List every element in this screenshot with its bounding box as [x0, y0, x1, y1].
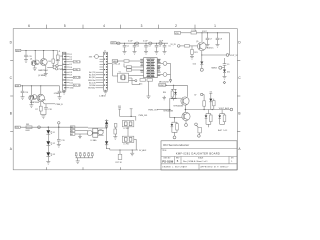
pad 5V label — [201, 93, 203, 95]
IC U1 left pin texts — [146, 59, 154, 77]
resistor R24 — [203, 101, 206, 106]
wire junction down — [201, 33, 203, 42]
wire gate bus — [157, 109, 170, 111]
ground — [144, 51, 148, 53]
net label D5V 2 — [15, 126, 20, 128]
svg-text:C22: C22 — [118, 106, 121, 108]
power flag T style — [130, 108, 133, 110]
resistor R10 — [124, 60, 129, 62]
wire D5V rail — [21, 50, 58, 52]
svg-text:LC FILT: LC FILT — [123, 144, 129, 146]
resistor RB — [176, 124, 179, 130]
node dot 3 — [149, 42, 152, 44]
test point bus ground — [77, 158, 79, 161]
title block col line c — [228, 156, 230, 163]
svg-text:Q5: Q5 — [196, 41, 198, 43]
resistor R14 under IC — [147, 79, 153, 82]
wire cap drop — [25, 51, 27, 55]
pin circle right 1 — [163, 62, 167, 66]
capacitor C4 — [156, 43, 158, 45]
capacitor C5 — [164, 43, 166, 45]
wire A2 — [75, 130, 88, 132]
junction — [169, 109, 170, 110]
connector J1 pin numbers — [63, 53, 66, 88]
ground mid — [131, 150, 133, 153]
wire Q2 out — [47, 66, 53, 68]
junction stack A — [173, 85, 174, 86]
wire Q_top base — [170, 97, 181, 99]
IC U1 outside pin names right — [158, 58, 161, 61]
LED D2 — [46, 141, 50, 145]
IC U1 outside pin names left — [140, 59, 160, 76]
ground — [44, 73, 48, 75]
pad below stack B — [173, 136, 176, 139]
capacitor C3 — [145, 43, 147, 45]
ESD device U3 — [87, 130, 92, 135]
svg-text:A0 (TX): A0 (TX) — [89, 71, 96, 74]
capacitor C18 — [45, 104, 47, 108]
filter box pair 2 — [122, 136, 134, 142]
wire Q3 emitter gnd — [30, 100, 32, 105]
pin net labels J2 — [88, 71, 96, 90]
svg-text:ON Semiconductor: ON Semiconductor — [163, 143, 189, 147]
pad VOUT_AUX — [230, 108, 233, 111]
net label A1 — [70, 126, 75, 129]
svg-text:B: B — [238, 112, 240, 116]
wire Q3 drop — [30, 86, 32, 95]
resistor R26 — [210, 115, 213, 122]
svg-text:D3: D3 — [70, 59, 72, 61]
svg-text:R30: R30 — [163, 92, 166, 94]
svg-text:C18: C18 — [48, 109, 51, 111]
tick column 3/2 top — [158, 25, 160, 29]
input pad 5V_IN — [177, 45, 180, 48]
svg-text:MMBT3904: MMBT3904 — [30, 102, 39, 104]
capacitor C15 — [24, 54, 28, 56]
test point TP2 — [79, 152, 81, 154]
svg-text:D1: D1 — [53, 132, 55, 134]
svg-text:GND: GND — [70, 88, 75, 90]
pad chain bottom-left — [195, 123, 198, 126]
capacitor C19 — [57, 139, 61, 141]
ground — [206, 44, 210, 46]
svg-text:DRAWN: J. BUTCHART: DRAWN: J. BUTCHART — [162, 166, 188, 169]
svg-text:D9: D9 — [70, 75, 72, 77]
wire R4 down to out — [52, 63, 54, 67]
pad 3V3 left — [56, 65, 58, 67]
wire Q1 collector drop — [34, 51, 36, 61]
diode D11 — [223, 70, 226, 73]
svg-text:J2: J2 — [104, 51, 106, 53]
diode DB — [171, 124, 174, 127]
svg-text:C19: C19 — [61, 140, 64, 142]
svg-text:D11: D11 — [227, 71, 230, 73]
svg-text:C14: C14 — [60, 56, 63, 58]
svg-text:R7: R7 — [35, 109, 37, 111]
net label 3V3 rail — [111, 42, 116, 44]
diode DA — [174, 92, 177, 95]
wire CTRL right — [108, 63, 113, 65]
ground — [46, 161, 50, 163]
LED D1 — [46, 130, 50, 134]
capacitor C7 — [207, 33, 209, 38]
resistor R20 — [185, 45, 190, 47]
wire IC bottom — [148, 81, 150, 96]
wire aux out — [186, 109, 231, 111]
svg-text:C17: C17 — [62, 92, 65, 94]
node dot — [117, 42, 120, 44]
ground — [155, 51, 159, 53]
svg-text:NTR4003N: NTR4003N — [164, 110, 174, 112]
wire vertical left — [112, 64, 114, 77]
node 3V3 — [95, 55, 99, 59]
svg-text:A2: A2 — [71, 130, 73, 133]
filter box pair 1 — [122, 121, 134, 127]
transistor Q5 — [198, 42, 207, 51]
net label VIN — [175, 31, 181, 34]
svg-text:D2: D2 — [53, 143, 55, 145]
connector J2 pin numbers — [104, 53, 107, 88]
svg-text:3V3: 3V3 — [89, 56, 92, 58]
svg-text:5V_AUX: 5V_AUX — [139, 149, 147, 152]
ground stub — [79, 134, 81, 137]
svg-text:6: 6 — [28, 24, 30, 28]
IC U1 center divider — [150, 58, 152, 78]
title block row line 3 — [161, 163, 237, 165]
border frame — [13, 29, 237, 170]
svg-text:5V_IN: 5V_IN — [171, 44, 177, 46]
node dot — [38, 126, 41, 129]
ground — [57, 144, 61, 146]
test point TP1 — [75, 152, 77, 154]
title block outer — [161, 141, 237, 170]
ground — [123, 51, 127, 53]
svg-text:FB1: FB1 — [26, 124, 29, 126]
svg-text:VIN: VIN — [175, 33, 179, 35]
svg-text:MMSZ: MMSZ — [212, 68, 218, 70]
ground — [24, 59, 28, 61]
svg-text:MISO A4: MISO A4 — [88, 79, 95, 82]
tick column 5/4 top — [82, 25, 84, 29]
wire base junction — [191, 46, 193, 50]
pin net labels J1 — [70, 54, 82, 90]
test point TP5 — [91, 152, 93, 154]
wire cap drop — [58, 127, 60, 139]
resistor R5 — [57, 51, 59, 55]
transistor Q3 dual — [29, 95, 34, 100]
crystal sub-circuit Y1 — [118, 73, 129, 82]
resistor R17 vertical — [118, 154, 122, 159]
svg-text:PWM_B: PWM_B — [56, 104, 64, 106]
IC U1 body — [144, 58, 158, 78]
svg-text:R21: R21 — [194, 52, 197, 54]
svg-text:A1: A1 — [71, 126, 73, 129]
ground — [163, 51, 167, 53]
wire out junction — [202, 54, 226, 56]
wire box1 to box2 — [127, 127, 129, 136]
svg-text:KMF-0281 DAUGHTER BOARD: KMF-0281 DAUGHTER BOARD — [176, 152, 220, 156]
wire rail2 — [20, 85, 59, 87]
LED D3 — [46, 152, 50, 156]
vertical diode chain — [106, 119, 108, 148]
wire A3 — [75, 133, 88, 135]
wire PWM_5V rail — [166, 84, 188, 86]
svg-text:APPROVED: M. P. GREULY: APPROVED: M. P. GREULY — [201, 166, 230, 169]
stack B pair — [174, 118, 176, 123]
svg-text:R13: R13 — [139, 84, 142, 86]
tick column 6/5 top — [45, 25, 47, 29]
svg-text:Q1: Q1 — [30, 58, 32, 60]
ferrite bead FB1 — [26, 126, 32, 129]
svg-text:J1: J1 — [59, 51, 61, 53]
ground — [216, 44, 220, 46]
diode pair group 2 — [221, 110, 223, 114]
net label D5V rail2 — [15, 85, 20, 87]
svg-text:C9: C9 — [227, 64, 229, 66]
wire mid rail — [120, 115, 136, 117]
ground — [62, 91, 66, 93]
junction LED — [48, 127, 49, 128]
svg-text:R17 1K: R17 1K — [116, 162, 123, 164]
wire emitter down — [201, 51, 203, 62]
resistor RA — [171, 91, 173, 97]
resistor R11 — [127, 66, 132, 68]
svg-text:C5: C5 — [168, 46, 170, 48]
diode D8 — [205, 115, 208, 118]
ground — [133, 51, 137, 53]
resistor R7 — [39, 106, 42, 111]
svg-text:Rev | SCALE: Sheet 1 of 1: Rev | SCALE: Sheet 1 of 1 — [183, 160, 208, 163]
tick column 4/3 top — [120, 25, 122, 29]
pin circle — [200, 68, 203, 71]
wire 3V3 rail — [116, 42, 168, 44]
svg-text:A3: A3 — [71, 133, 73, 136]
ground — [21, 96, 25, 98]
wire J1 gnd — [63, 90, 65, 91]
title block col line b — [180, 156, 182, 163]
IC right stubs — [157, 59, 160, 61]
transistor Q8 — [182, 112, 190, 120]
wire Q_bottom base — [170, 117, 182, 119]
wire right vertical — [170, 63, 172, 79]
wire cap16 drop — [22, 86, 24, 91]
ground stub — [163, 96, 165, 98]
svg-text:PWM_5V0: PWM_5V0 — [139, 115, 148, 117]
ground shared — [41, 114, 46, 116]
wire Q4 out — [44, 103, 55, 105]
resistor R12 — [127, 69, 132, 71]
svg-text:3V3: 3V3 — [111, 43, 114, 45]
ground — [190, 56, 194, 58]
test point TP4 — [88, 152, 90, 154]
stack A pair top wire — [171, 88, 177, 90]
diode D5 — [105, 141, 108, 144]
svg-text:C16: C16 — [25, 92, 28, 94]
wire right branch — [52, 51, 54, 59]
fuse F1 — [191, 32, 197, 34]
svg-text:C3: C3 — [148, 46, 150, 48]
crystal element — [122, 75, 125, 80]
tick column 2/1 top — [194, 25, 196, 29]
power flag D7 — [209, 92, 212, 94]
diode D10 — [200, 62, 203, 65]
ground — [56, 60, 60, 62]
junction — [212, 109, 213, 110]
title block col line a — [174, 156, 176, 163]
stack B bottom wire — [172, 131, 177, 133]
stack A pair bottom wire — [171, 98, 177, 100]
svg-text:MKL26Z32: MKL26Z32 — [159, 81, 170, 83]
connector J1 body — [62, 52, 66, 90]
resistor R25 — [213, 101, 216, 106]
group 1 bottom wire — [206, 123, 211, 125]
wire to vertical — [103, 127, 106, 129]
svg-text:3: 3 — [141, 24, 143, 28]
wire 3V3 top — [98, 56, 103, 58]
svg-text:C8: C8 — [220, 38, 222, 40]
node circle — [105, 125, 107, 127]
svg-text:LC FILT: LC FILT — [123, 128, 129, 130]
crystal wires to IC — [129, 75, 144, 77]
wire bottom run — [107, 147, 110, 149]
title block row line 1 — [161, 147, 237, 149]
title block row line 2 — [161, 155, 237, 157]
ground — [33, 67, 37, 69]
wire J2 gnd — [105, 90, 107, 91]
capacitor C1 — [124, 43, 126, 45]
tick row right — [237, 60, 240, 62]
svg-text:A2 (SD): A2 (SD) — [89, 76, 96, 79]
ground — [113, 136, 117, 138]
svg-text:4: 4 — [103, 24, 105, 28]
wire Q4 drop — [40, 86, 42, 95]
svg-text:U-TAG: U-TAG — [90, 139, 97, 142]
svg-text:1: 1 — [214, 24, 216, 28]
diode D7 — [209, 99, 212, 102]
wire cap17 drop — [59, 86, 61, 91]
net label VBUS — [112, 60, 118, 63]
net label A3 — [70, 133, 75, 136]
svg-text:D12: D12 — [70, 82, 73, 84]
ground — [223, 76, 227, 78]
ground — [104, 91, 108, 93]
svg-text:PS-0109: PS-0109 — [162, 160, 173, 164]
wire VIN rail — [181, 32, 192, 34]
wire LED drop — [47, 127, 49, 130]
capacitor C8 — [217, 33, 219, 38]
pad VOUT_5V — [226, 54, 229, 57]
transistor Q4 — [37, 94, 44, 101]
svg-text:Y1: Y1 — [119, 71, 121, 73]
test point TP3 — [84, 152, 86, 154]
svg-text:VOUT_5V: VOUT_5V — [230, 55, 239, 57]
svg-text:3V3: 3V3 — [52, 66, 55, 68]
junction — [204, 109, 205, 110]
svg-text:MOSI A7: MOSI A7 — [88, 87, 95, 90]
wire box2 right down — [134, 138, 136, 140]
vertical gate bus — [169, 98, 171, 118]
tick row left — [10, 60, 13, 62]
svg-text:B: B — [10, 112, 12, 116]
svg-text:MMBT3904: MMBT3904 — [38, 70, 47, 72]
ground — [147, 95, 151, 97]
wire Q7 down — [184, 105, 186, 112]
resistor R4 — [52, 59, 55, 63]
pad below Q8 — [185, 120, 187, 123]
net flag top — [223, 81, 225, 83]
svg-text:MJD32C: MJD32C — [207, 48, 215, 50]
wire Q2 collector — [43, 51, 45, 59]
net label D5V — [16, 49, 21, 51]
box pair inside — [93, 128, 98, 132]
resistor R21 — [191, 50, 194, 55]
resistor R27 — [223, 115, 226, 122]
transistor Q2 — [40, 59, 47, 66]
junction cap — [58, 127, 59, 128]
svg-text:R4: R4 — [49, 61, 51, 63]
svg-text:A1 (RX): A1 (RX) — [89, 74, 96, 77]
capacitor C16 — [21, 90, 25, 92]
ground — [58, 96, 62, 98]
test point bus — [76, 157, 93, 159]
svg-text:F1 2A: F1 2A — [192, 29, 198, 32]
wire Q1 emitter to gnd — [34, 65, 36, 68]
svg-text:PWM_OUT: PWM_OUT — [148, 109, 159, 111]
svg-text:C1: C1 — [127, 46, 129, 48]
svg-text:5: 5 — [64, 24, 66, 28]
net arrow — [169, 80, 171, 83]
net label A2 — [70, 129, 75, 132]
wire Q2 emitter to gnd — [45, 65, 47, 73]
net label PWM_5V — [159, 84, 166, 87]
power flag cap style — [118, 107, 121, 109]
svg-text:C4: C4 — [159, 46, 161, 48]
power flag +5V — [58, 124, 60, 127]
svg-text:C2: C2 — [137, 46, 139, 48]
svg-text:NTR4003N: NTR4003N — [174, 106, 184, 108]
svg-text:PWM_5V: PWM_5V — [159, 85, 168, 87]
wire rail to corner — [197, 32, 230, 34]
capacitor C2 — [134, 43, 136, 45]
connector J2 body — [104, 52, 108, 90]
title block col line d — [198, 164, 200, 170]
svg-text:VOUT_AUX: VOUT_AUX — [219, 107, 230, 110]
diode D9 — [218, 115, 221, 118]
svg-text:D3: D3 — [53, 154, 55, 156]
node MMSZ — [219, 66, 222, 69]
capacitor C9 — [224, 62, 226, 64]
wire LED rail — [21, 126, 89, 128]
svg-text:A5 (CS): A5 (CS) — [89, 81, 96, 84]
connector J1 pin stubs — [66, 53, 69, 55]
transistor Q7 — [181, 97, 189, 105]
pad out — [55, 68, 57, 70]
junction to aux wire — [185, 109, 186, 110]
transistor Q1 dual — [31, 61, 36, 66]
svg-text:2: 2 — [175, 24, 177, 28]
node dot 2 — [135, 42, 138, 44]
diode D4 up — [105, 121, 108, 124]
IC U1 right pin texts — [151, 58, 155, 61]
svg-text:VBUS: VBUS — [113, 61, 119, 63]
svg-text:VOUT: VOUT — [202, 31, 207, 33]
svg-text:SCK A6: SCK A6 — [89, 84, 95, 87]
wire VBUS — [118, 60, 124, 62]
diode pair group 1 — [207, 110, 209, 114]
ground — [29, 104, 33, 106]
svg-text:D6: D6 — [70, 67, 72, 69]
resistor R13 under IC — [140, 79, 146, 82]
